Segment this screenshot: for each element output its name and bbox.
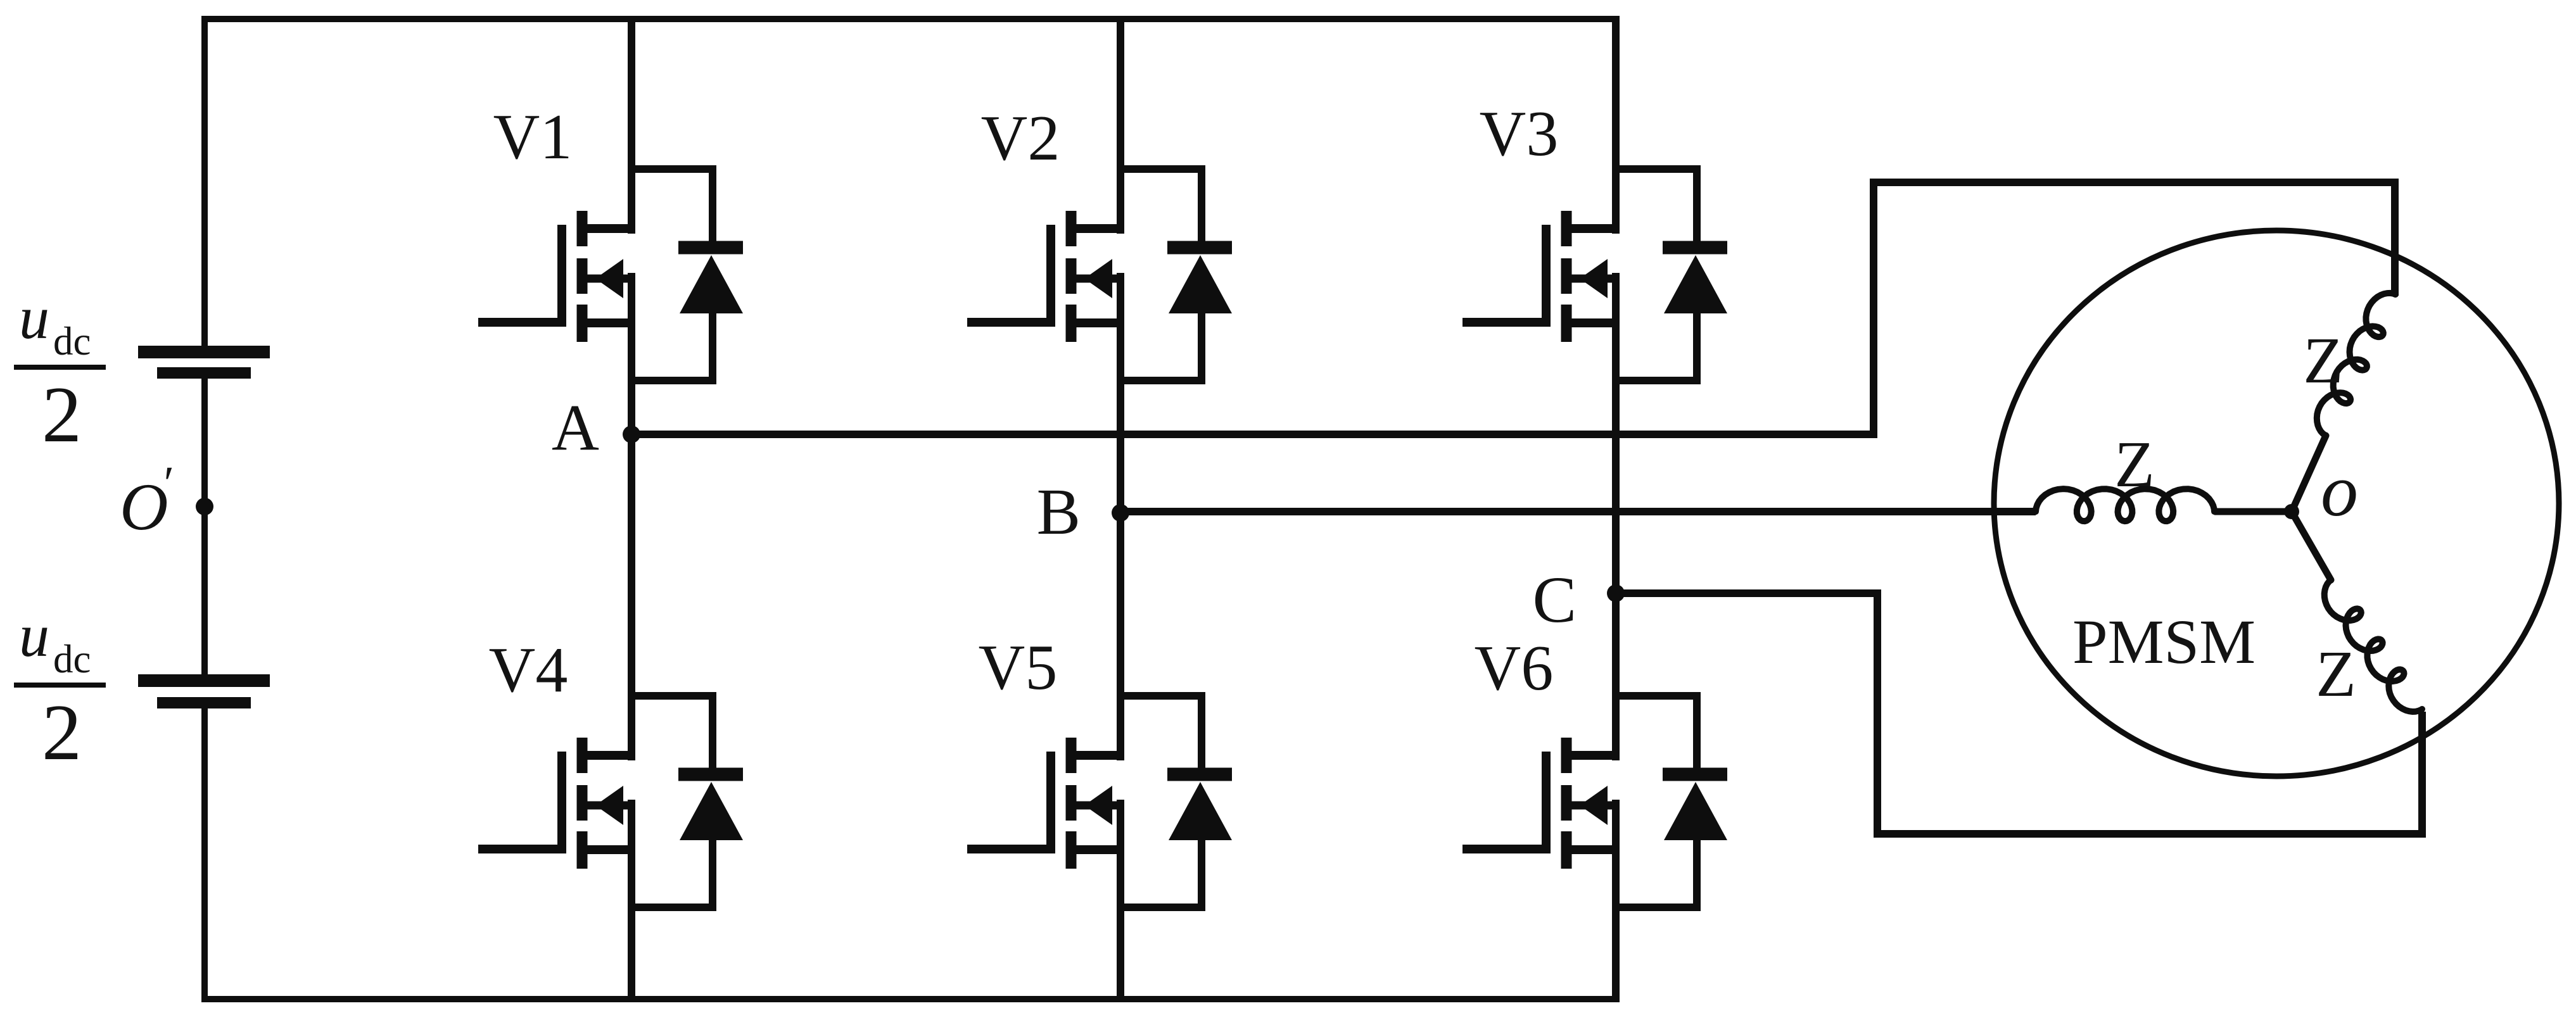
transistor V1 (N-channel MOSFET) bbox=[478, 211, 635, 342]
motor PMSM stator circle bbox=[1994, 230, 2559, 776]
svg-text:V2: V2 bbox=[981, 103, 1060, 174]
transistor V5 (N-channel MOSFET) bbox=[967, 738, 1124, 869]
svg-text:V1: V1 bbox=[493, 101, 573, 173]
diode D5 (antiparallel with V5) bbox=[1120, 696, 1232, 907]
node A junction dot bbox=[623, 425, 640, 443]
diode D3 (antiparallel with V3) bbox=[1616, 169, 1727, 381]
winding Z phase B (left horizontal coil) bbox=[2036, 489, 2214, 521]
wire: left DC-link top segment bbox=[201, 16, 208, 346]
svg-text:2: 2 bbox=[42, 371, 82, 459]
svg-text:2: 2 bbox=[42, 689, 82, 777]
svg-text:u: u bbox=[19, 284, 49, 351]
transistor V6 (N-channel MOSFET) bbox=[1462, 738, 1619, 869]
svg-text:V6: V6 bbox=[1475, 633, 1554, 704]
diode D1 (antiparallel with V1) bbox=[631, 169, 743, 381]
wire: phase A (node A to motor, up-and-over route) bbox=[631, 182, 2395, 434]
svg-text:dc: dc bbox=[53, 319, 91, 363]
wire: leg 3 source bus (V6 to bottom rail) bbox=[1612, 800, 1620, 1002]
battery E2 (udc/2 lower) long plate bbox=[138, 674, 270, 687]
wire: leg 3 drain bus (top rail to V3) bbox=[1612, 16, 1620, 234]
svg-text:V3: V3 bbox=[1480, 98, 1559, 170]
wire: phase B (node B to motor winding) bbox=[1120, 508, 2036, 515]
wire: bottom DC rail bbox=[201, 996, 1620, 1002]
svg-text:′: ′ bbox=[161, 457, 172, 510]
winding Z phase A (top-right coil) bbox=[2317, 293, 2395, 436]
wire: phase C (node C to motor, down-and-under route) bbox=[1616, 593, 2422, 834]
svg-text:C: C bbox=[1533, 564, 1577, 636]
node B junction dot bbox=[1112, 504, 1129, 522]
svg-text:B: B bbox=[1037, 475, 1081, 548]
svg-text:o: o bbox=[2321, 449, 2358, 532]
wire: leg 1 mid bus (V1 source to V4 drain) bbox=[628, 273, 635, 760]
wire: leg 2 drain bus (top rail to V2) bbox=[1117, 16, 1124, 234]
svg-text:V5: V5 bbox=[979, 632, 1058, 703]
fraction bar (upper u_dc/2) bbox=[14, 365, 106, 370]
wire: leg 2 mid bus (V2 source to V5 drain) bbox=[1117, 273, 1124, 760]
transistor V3 (N-channel MOSFET) bbox=[1462, 211, 1619, 342]
wire: left DC-link middle segment bbox=[201, 379, 208, 675]
winding Z phase C (bottom-right coil) bbox=[2292, 512, 2331, 580]
wire: leg 1 drain bus (top rail to V1) bbox=[628, 16, 635, 234]
wire: leg 1 source bus (V4 to bottom rail) bbox=[628, 800, 635, 1002]
node o (star point) junction dot bbox=[2284, 504, 2299, 519]
battery E1 short plate bbox=[157, 367, 251, 379]
wire: leg 3 mid bus (V3 source to V6 drain) bbox=[1612, 273, 1620, 760]
svg-text:Z: Z bbox=[2316, 638, 2356, 710]
svg-text:V4: V4 bbox=[489, 634, 568, 706]
transistor V4 (N-channel MOSFET) bbox=[478, 738, 635, 869]
node O' junction dot bbox=[196, 498, 213, 515]
wire: leg 2 source bus (V5 to bottom rail) bbox=[1117, 800, 1124, 1002]
svg-text:Z: Z bbox=[2114, 428, 2155, 501]
diode D4 (antiparallel with V4) bbox=[631, 696, 743, 907]
diode D6 (antiparallel with V6) bbox=[1616, 696, 1727, 907]
svg-text:u: u bbox=[19, 601, 49, 669]
battery E2 short plate bbox=[157, 697, 251, 708]
svg-text:Z: Z bbox=[2303, 324, 2344, 397]
diode D2 (antiparallel with V2) bbox=[1120, 169, 1232, 381]
svg-text:PMSM: PMSM bbox=[2072, 607, 2256, 677]
wire: top DC rail bbox=[201, 16, 1620, 22]
wire: left DC-link bottom segment bbox=[201, 708, 208, 999]
svg-text:A: A bbox=[552, 391, 599, 464]
battery E1 (udc/2 upper) long plate bbox=[138, 346, 270, 358]
node C junction dot bbox=[1607, 584, 1625, 602]
fraction bar (lower u_dc/2) bbox=[14, 683, 106, 688]
svg-text:dc: dc bbox=[53, 637, 91, 681]
transistor V2 (N-channel MOSFET) bbox=[967, 211, 1124, 342]
